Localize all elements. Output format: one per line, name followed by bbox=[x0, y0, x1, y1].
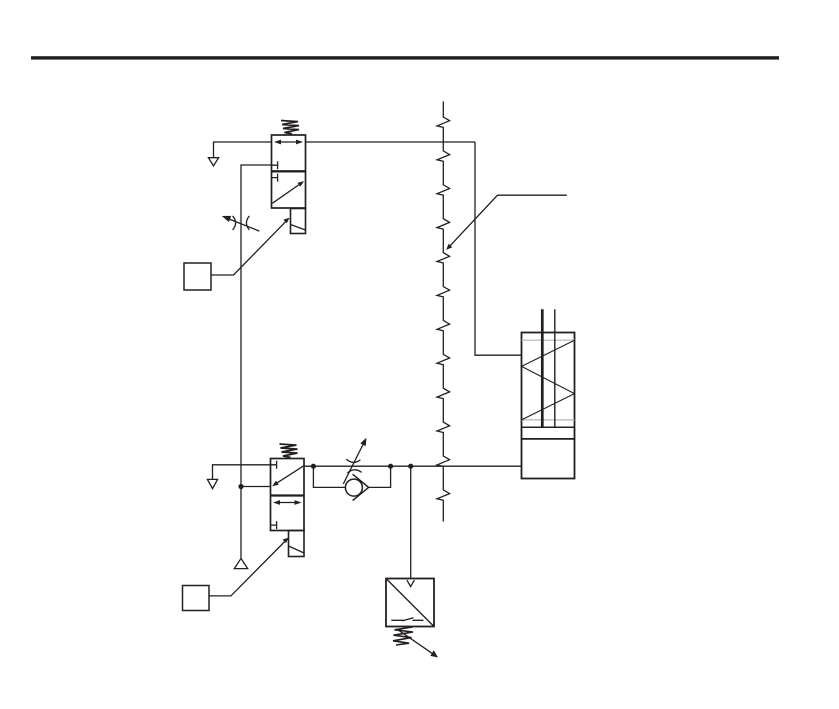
check valve seat bbox=[353, 474, 369, 500]
junction dot at pilot line / valve V2 port bbox=[238, 484, 243, 489]
junction dot (bypass right) bbox=[388, 464, 393, 469]
cylinder lower chamber line (light) bbox=[522, 419, 575, 421]
exhaust triangle (top, pointing down) bbox=[208, 158, 218, 166]
regulator spring bbox=[393, 627, 413, 645]
wire: main output line V2 to cylinder bbox=[304, 465, 522, 467]
wire: top supply line from valve V1 to cylinder drop bbox=[306, 141, 476, 143]
throttle on pilot line bbox=[222, 216, 260, 231]
valve V1 body bbox=[272, 135, 306, 208]
wire: dot to valve V2 left port bbox=[241, 486, 271, 488]
valve V1 port T (upper) bbox=[272, 161, 278, 169]
valve V2 pilot box bbox=[289, 531, 305, 557]
valve V2 port T (top) bbox=[271, 461, 277, 469]
cylinder rod (thin) bbox=[554, 309, 556, 427]
regulator diagonal bbox=[387, 579, 434, 626]
valve V1 double arrow (top position) bbox=[274, 140, 303, 145]
leader arrow to V2 pilot bbox=[209, 538, 289, 596]
valve V1 port T (lower) bbox=[272, 174, 278, 182]
valve V2 body bbox=[271, 459, 305, 531]
valve V1 pilot box bbox=[291, 209, 306, 234]
coiled hose (long zigzag) bbox=[437, 101, 450, 521]
valve V1 spring bbox=[281, 121, 299, 134]
callout box (top) bbox=[184, 263, 211, 290]
regulator adjusting arrow bbox=[398, 630, 438, 658]
regulator body bbox=[386, 579, 434, 627]
page header rule bbox=[31, 56, 779, 59]
valve V2 double arrow (bottom position) bbox=[273, 500, 302, 505]
leader arrow to V1 pilot bbox=[211, 218, 290, 275]
cylinder rod (thick) bbox=[541, 309, 544, 427]
regulator seat chevron bbox=[407, 580, 415, 587]
cylinder body bbox=[522, 333, 575, 479]
wire: lower vertical to suction triangle bbox=[240, 487, 242, 559]
regulator switch marks bbox=[391, 618, 423, 621]
wire: drop to cylinder top port bbox=[475, 142, 522, 355]
callout box (bottom) bbox=[183, 586, 210, 611]
junction dot (regulator branch) bbox=[408, 464, 413, 469]
wire: V1 left exhaust branch bbox=[214, 142, 272, 158]
cylinder return spring bbox=[522, 340, 575, 420]
junction dot (bypass left) bbox=[311, 464, 316, 469]
exhaust triangle (bottom, pointing down) bbox=[207, 479, 217, 488]
cylinder piston plate bbox=[522, 426, 575, 428]
wire: branch down to regulator bbox=[410, 466, 412, 578]
wire: V2 left exhaust branch bbox=[213, 465, 271, 480]
valve V2 flow arrow (top position) bbox=[272, 466, 303, 486]
throttle (speed control) on main line bbox=[343, 438, 366, 484]
suction triangle (pointing up) bbox=[234, 558, 247, 568]
valve V2 port T (bottom) bbox=[271, 521, 277, 529]
wire: V1 pilot supply vertical line bbox=[241, 165, 272, 487]
valve V1 flow arrow (bottom position) bbox=[273, 181, 305, 203]
valve V2 spring bbox=[280, 444, 298, 457]
cylinder upper chamber line (light) bbox=[522, 339, 575, 341]
bypass wire with check valve bbox=[313, 466, 345, 487]
leader arrow to coiled hose bbox=[446, 195, 567, 250]
check valve ball bbox=[345, 479, 362, 496]
